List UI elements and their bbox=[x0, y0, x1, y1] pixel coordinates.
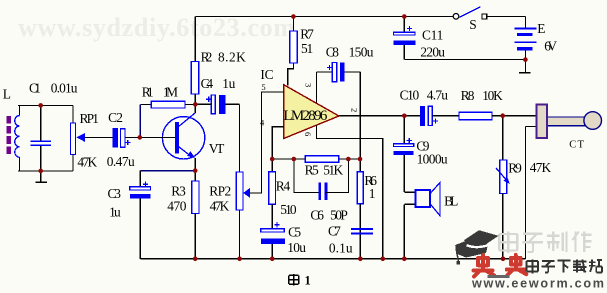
svg-text:51K: 51K bbox=[323, 163, 343, 178]
svg-text:C5: C5 bbox=[288, 225, 301, 240]
svg-text:C4: C4 bbox=[201, 76, 214, 91]
svg-text:E: E bbox=[537, 21, 545, 36]
svg-text:1000u: 1000u bbox=[417, 152, 448, 167]
svg-text:C2: C2 bbox=[108, 110, 123, 125]
svg-text:1M: 1M bbox=[163, 84, 178, 99]
svg-text:2: 2 bbox=[350, 108, 360, 112]
svg-text:BL: BL bbox=[444, 194, 458, 209]
svg-text:C7: C7 bbox=[328, 223, 341, 238]
svg-text:47K: 47K bbox=[530, 160, 552, 175]
svg-text:4.7u: 4.7u bbox=[427, 87, 448, 102]
svg-text:R3: R3 bbox=[171, 183, 186, 198]
svg-text:C8: C8 bbox=[326, 45, 339, 60]
svg-text:3: 3 bbox=[303, 83, 313, 87]
svg-text:R2: R2 bbox=[201, 50, 213, 65]
svg-text:1: 1 bbox=[305, 273, 311, 287]
svg-text:RP2: RP2 bbox=[209, 183, 231, 198]
svg-text:1: 1 bbox=[369, 186, 376, 201]
svg-text:8.2K: 8.2K bbox=[218, 50, 246, 65]
svg-text:470: 470 bbox=[167, 198, 186, 213]
svg-text:50P: 50P bbox=[330, 207, 348, 222]
svg-text:10u: 10u bbox=[287, 240, 306, 255]
svg-text:C1: C1 bbox=[29, 80, 41, 95]
svg-text:R5: R5 bbox=[305, 163, 319, 178]
svg-text:S: S bbox=[469, 17, 476, 32]
svg-text:6: 6 bbox=[303, 132, 313, 136]
svg-text:RP1: RP1 bbox=[80, 111, 99, 126]
svg-text:VT: VT bbox=[209, 141, 225, 156]
svg-text:www.sydzdiy.6to23.com: www.sydzdiy.6to23.com bbox=[18, 13, 295, 42]
svg-text:R9: R9 bbox=[508, 160, 522, 175]
svg-text:510: 510 bbox=[280, 202, 297, 217]
svg-text:R1: R1 bbox=[142, 84, 154, 99]
svg-text:47K: 47K bbox=[77, 155, 97, 170]
svg-text:0.1u: 0.1u bbox=[329, 240, 353, 255]
svg-text:R4: R4 bbox=[276, 179, 291, 194]
svg-text:C11: C11 bbox=[422, 27, 443, 42]
svg-text:CT: CT bbox=[569, 139, 585, 150]
svg-text:C10: C10 bbox=[400, 87, 420, 102]
svg-text:220u: 220u bbox=[420, 44, 445, 59]
svg-text:51: 51 bbox=[301, 41, 313, 56]
svg-text:LM2896: LM2896 bbox=[283, 108, 328, 124]
svg-text:10K: 10K bbox=[482, 88, 503, 103]
svg-text:www.eeworm.com: www.eeworm.com bbox=[471, 277, 604, 288]
svg-text:0.01u: 0.01u bbox=[51, 80, 78, 95]
svg-text:5: 5 bbox=[261, 82, 265, 92]
svg-text:R8: R8 bbox=[461, 88, 475, 103]
svg-text:C3: C3 bbox=[108, 186, 122, 201]
svg-text:C6: C6 bbox=[310, 207, 324, 222]
svg-text:0.47u: 0.47u bbox=[107, 154, 135, 169]
svg-text:6V: 6V bbox=[544, 39, 557, 54]
svg-text:IC: IC bbox=[260, 67, 273, 82]
svg-text:150u: 150u bbox=[349, 45, 374, 60]
svg-text:R7: R7 bbox=[300, 26, 314, 41]
svg-text:L: L bbox=[3, 86, 11, 101]
svg-text:47K: 47K bbox=[210, 198, 230, 213]
svg-text:1u: 1u bbox=[222, 76, 235, 91]
svg-text:1u: 1u bbox=[109, 204, 121, 219]
